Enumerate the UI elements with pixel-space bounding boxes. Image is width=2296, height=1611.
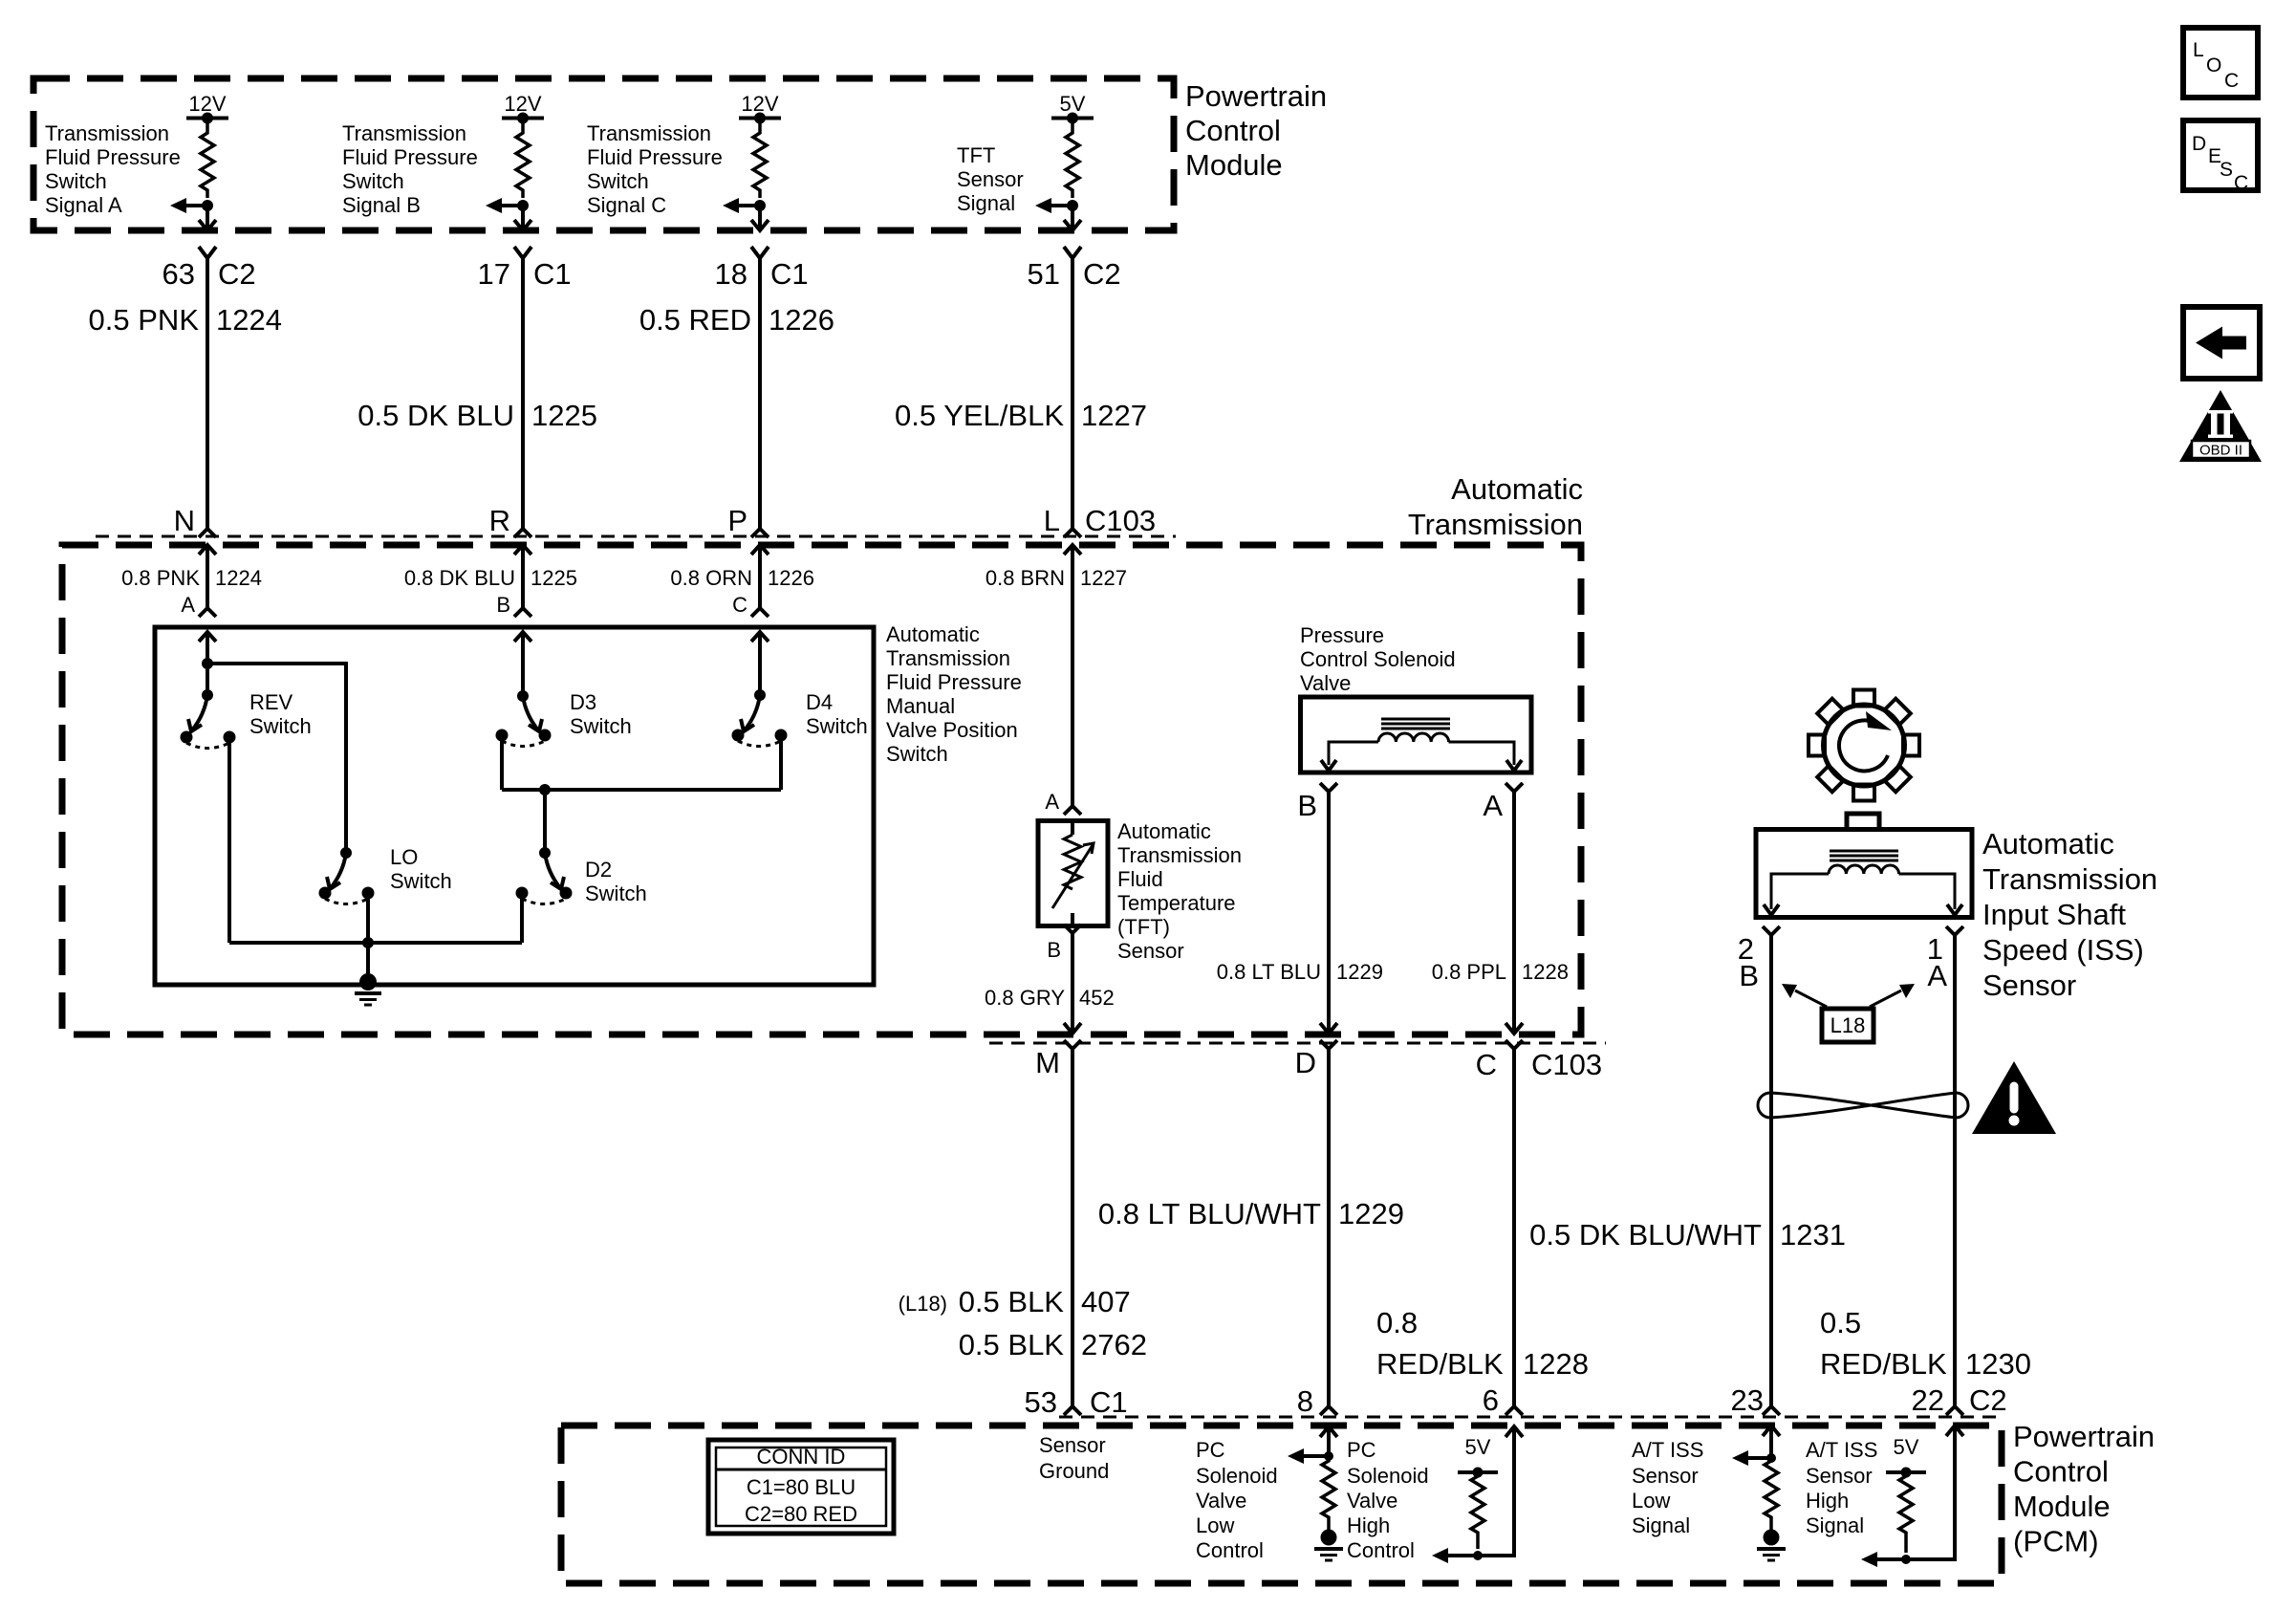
wire: circuit 1228 PCS A down to AT case C <box>1512 792 1516 1034</box>
node: 5V rail (pin 6) <box>1458 1470 1498 1474</box>
svg-text:M: M <box>1035 1046 1060 1079</box>
resistor: 5V pull-up (pin 6) <box>1471 1472 1484 1549</box>
Automatic Transmission dashed outline box <box>62 545 1581 1034</box>
wire through TFT box <box>1071 821 1074 836</box>
switch D3: travel arc (dashed) <box>502 741 545 747</box>
node: 5V rail (pin 22) <box>1886 1470 1926 1474</box>
switch REV: movable arm with arrowhead <box>191 695 207 731</box>
svg-text:(L18): (L18) <box>899 1292 947 1316</box>
svg-text:Switch: Switch <box>45 169 107 193</box>
svg-text:5V: 5V <box>1060 92 1086 116</box>
svg-text:0.5 DK BLU/WHT: 0.5 DK BLU/WHT <box>1529 1218 1762 1252</box>
svg-text:6: 6 <box>1483 1383 1499 1417</box>
switch REV: left contact <box>181 731 193 744</box>
ground: PCM internal ground (pin 23 path) <box>1764 1530 1780 1546</box>
wire: circuit 1230 ISS 1/A down to PCM 22 <box>1953 935 1957 1406</box>
junction: 5V pull-up bottom node (pin 22) <box>1901 1555 1911 1564</box>
svg-text:12V: 12V <box>741 92 778 116</box>
svg-text:Fluid Pressure: Fluid Pressure <box>886 670 1022 694</box>
svg-text:Fluid Pressure: Fluid Pressure <box>45 145 181 169</box>
svg-text:Powertrain: Powertrain <box>2013 1420 2155 1453</box>
wire: circuit 1228 from C103 C down to PCM 6 <box>1512 1049 1516 1406</box>
svg-text:0.8 LT BLU/WHT: 0.8 LT BLU/WHT <box>1098 1197 1321 1230</box>
pin 22: A/T ISS Sensor High Signal entry arrow <box>1946 1426 1963 1436</box>
svg-text:Sensor: Sensor <box>1117 939 1184 963</box>
wire: AT pin L entry arrow + lead down to TFT sensor pin A <box>1064 545 1081 555</box>
svg-text:C: C <box>732 593 747 617</box>
junction: pin 23 node <box>1766 1453 1776 1463</box>
connector female half at PCM pin 22 (opens down) <box>1946 1406 1963 1415</box>
gear icon: reluctor wheel with rotation arrow <box>1809 690 1919 801</box>
svg-text:Control: Control <box>1347 1538 1415 1562</box>
connector female half at PCM pin 6 (opens down) <box>1505 1406 1523 1415</box>
switch LO: travel arc (dashed) <box>325 899 368 904</box>
svg-text:B: B <box>1047 938 1061 962</box>
wire: circuit 1229 PCS B down to AT case D <box>1327 792 1331 1034</box>
connector female half at MVPS pin A <box>199 608 216 617</box>
svg-text:PC: PC <box>1196 1438 1225 1462</box>
ISS box top tab <box>1847 814 1879 830</box>
connector female half at PCM pin 53 (opens down) <box>1064 1406 1081 1415</box>
svg-text:B: B <box>1297 789 1317 822</box>
svg-text:Signal B: Signal B <box>342 193 421 217</box>
svg-text:(TFT): (TFT) <box>1117 915 1170 939</box>
node: 5V rail col4 <box>1051 117 1094 120</box>
resistor: PC solenoid low control internal <box>1322 1456 1335 1535</box>
svg-text:A: A <box>181 593 195 617</box>
svg-text:B: B <box>496 593 510 617</box>
svg-text:C1: C1 <box>533 257 572 291</box>
svg-text:63: 63 <box>162 257 195 291</box>
svg-text:1225: 1225 <box>531 566 577 590</box>
coil lead A with down arrow <box>1449 742 1515 765</box>
svg-text:C: C <box>2234 172 2248 194</box>
svg-text:Sensor: Sensor <box>1632 1464 1699 1488</box>
connector female half at PCM pin 18 <box>751 247 769 258</box>
svg-text:1226: 1226 <box>769 303 834 337</box>
signal arrow: A/T ISS Sensor Low Signal (points left) <box>1746 1456 1771 1460</box>
switch REV: pivot <box>202 689 213 701</box>
svg-text:Transmission: Transmission <box>342 121 466 145</box>
svg-text:0.5: 0.5 <box>1820 1306 1861 1339</box>
switch D4: left contact <box>732 729 745 742</box>
svg-text:Switch: Switch <box>249 714 312 738</box>
svg-text:452: 452 <box>1079 986 1115 1010</box>
svg-text:Fluid Pressure: Fluid Pressure <box>342 145 478 169</box>
svg-text:Valve: Valve <box>1347 1489 1397 1513</box>
switch LO: movable arm with arrowhead <box>330 853 346 889</box>
svg-text:12V: 12V <box>188 92 226 116</box>
resistor: TFP switch signal C pull-up <box>753 119 767 199</box>
svg-text:0.5 BLK: 0.5 BLK <box>959 1328 1065 1361</box>
svg-text:Sensor: Sensor <box>957 167 1024 191</box>
wire: ground stem to case <box>366 943 370 983</box>
svg-text:L: L <box>1044 504 1060 537</box>
Automatic Transmission Input Shaft Speed (ISS) Sensor box <box>1756 830 1972 918</box>
wire: D2 left contact down to ground bus <box>520 893 524 943</box>
svg-text:0.8 BRN: 0.8 BRN <box>986 566 1065 590</box>
svg-text:1225: 1225 <box>531 399 597 432</box>
connector female half at C103 P (opens down) <box>751 529 769 537</box>
svg-text:Temperature: Temperature <box>1117 891 1236 915</box>
resistor: 5V pull-up (pin 22) <box>1899 1472 1913 1553</box>
svg-text:C1: C1 <box>1090 1385 1128 1419</box>
switch D2: movable arm with arrowhead <box>545 853 561 889</box>
resistor: ISS low signal internal <box>1765 1458 1778 1535</box>
junction: col4 signal node <box>1067 200 1078 211</box>
svg-text:Module: Module <box>2013 1490 2111 1523</box>
svg-text:RED/BLK: RED/BLK <box>1820 1347 1947 1381</box>
switch D3: right contact <box>539 729 552 742</box>
svg-text:1227: 1227 <box>1081 399 1147 432</box>
svg-text:2762: 2762 <box>1081 1328 1147 1361</box>
svg-text:0.5 RED: 0.5 RED <box>639 303 751 337</box>
svg-text:1228: 1228 <box>1522 960 1569 984</box>
svg-text:C1: C1 <box>770 257 809 291</box>
wire: pin 22 down and left to 5V divider <box>1874 1426 1955 1559</box>
switch D2: entry node <box>539 847 551 859</box>
wire: LO right contact down to ground bus <box>366 893 370 943</box>
svg-text:C103: C103 <box>1085 504 1156 537</box>
solenoid coil <box>1378 733 1449 742</box>
svg-text:Signal: Signal <box>1632 1513 1690 1537</box>
wire: circuit 407/2762 from C103 M down to PCM 53 C1 <box>1071 1049 1074 1406</box>
svg-text:LO: LO <box>390 845 418 869</box>
wire: AT pin R entry arrow + lead to MVPS pin B <box>514 545 531 555</box>
svg-text:12V: 12V <box>504 92 541 116</box>
connector female half at MVPS pin C <box>751 608 769 617</box>
svg-text:Solenoid: Solenoid <box>1196 1464 1278 1488</box>
svg-text:0.8: 0.8 <box>1376 1306 1418 1339</box>
pin 8: PC Solenoid Valve Low Control entry arrow <box>1320 1426 1337 1437</box>
svg-text:Signal: Signal <box>957 191 1015 215</box>
wire: bus down to D2 switch <box>543 790 547 853</box>
junction: D2 branch node on feed bus <box>539 784 551 795</box>
svg-text:CONN ID: CONN ID <box>757 1445 846 1469</box>
svg-text:S: S <box>2220 159 2233 181</box>
svg-text:Manual: Manual <box>886 694 955 718</box>
wire: circuit 1227 from PCM 51 C2 down to AT pin L <box>1071 258 1074 529</box>
junction: ground bus node <box>362 937 374 948</box>
svg-text:D3: D3 <box>570 690 596 714</box>
svg-text:A: A <box>1045 790 1059 814</box>
svg-text:Control Solenoid: Control Solenoid <box>1300 647 1456 671</box>
svg-text:C2=80 RED: C2=80 RED <box>745 1502 857 1526</box>
svg-text:C2: C2 <box>218 257 256 291</box>
node: 12V rail col1 <box>186 117 228 120</box>
resistor: TFT sensor signal pull-up <box>1066 119 1079 199</box>
svg-text:C: C <box>1476 1048 1497 1081</box>
switch D3: pivot <box>517 690 529 702</box>
svg-text:Valve: Valve <box>1300 671 1351 695</box>
svg-text:C: C <box>2224 70 2239 92</box>
svg-text:N: N <box>174 504 195 537</box>
Powertrain Control Module (top) dashed outline box <box>33 78 1174 230</box>
callout arrow to A wire <box>1870 991 1901 1007</box>
svg-text:0.8 ORN: 0.8 ORN <box>670 566 752 590</box>
svg-text:Switch: Switch <box>587 169 649 193</box>
svg-text:407: 407 <box>1081 1285 1131 1318</box>
svg-text:D: D <box>2192 133 2206 155</box>
svg-text:8: 8 <box>1297 1384 1313 1418</box>
switch LO: left contact <box>319 887 332 900</box>
ground: MVPS case ground <box>359 973 377 991</box>
wire: circuit 1226 from PCM 18 C1 down to AT pin P <box>758 258 762 529</box>
svg-text:Transmission: Transmission <box>1982 862 2157 896</box>
svg-text:High: High <box>1347 1513 1390 1537</box>
svg-text:Control: Control <box>2013 1455 2109 1489</box>
switch REV: right contact <box>224 731 236 744</box>
junction: pin 8 node <box>1324 1451 1333 1461</box>
svg-text:17: 17 <box>478 257 510 291</box>
switch D4: right contact <box>775 729 788 742</box>
switch D3: movable arm with arrowhead <box>523 696 539 731</box>
svg-text:Transmission: Transmission <box>886 646 1010 670</box>
connector C103 (top) thin dashed line <box>96 535 1176 538</box>
svg-text:53: 53 <box>1025 1385 1057 1419</box>
svg-text:Sensor: Sensor <box>1039 1433 1106 1457</box>
wire: MVPS pin C internal entry arrow to D4 <box>751 632 769 642</box>
switch D4: movable arm with arrowhead <box>744 695 760 731</box>
svg-text:Solenoid: Solenoid <box>1347 1464 1429 1488</box>
resistor: TFP switch signal A pull-up <box>201 119 214 199</box>
solenoid core lines <box>1381 718 1450 721</box>
svg-text:Switch: Switch <box>390 869 452 893</box>
svg-text:Powertrain: Powertrain <box>1185 79 1327 113</box>
connector female half at TFT pin B (opens up) <box>1064 925 1081 933</box>
svg-text:0.5 BLK: 0.5 BLK <box>959 1285 1065 1318</box>
svg-text:Control: Control <box>1196 1538 1264 1562</box>
svg-text:A: A <box>1483 789 1503 822</box>
svg-text:1226: 1226 <box>768 566 814 590</box>
connector female half at PCS pin A (opens up) <box>1505 783 1523 792</box>
switch D4: pivot <box>754 689 766 701</box>
junction: REV switch feed node <box>202 658 213 669</box>
svg-text:C1=80 BLU: C1=80 BLU <box>747 1475 856 1499</box>
svg-text:0.8 DK BLU: 0.8 DK BLU <box>404 566 515 590</box>
svg-text:L18: L18 <box>1830 1013 1866 1037</box>
wire: ground bus (REV/LO/D2 contacts) <box>229 941 522 945</box>
wire: circuit 1224 from PCM 63 C2 down to AT pin N <box>206 258 209 529</box>
connector female half at MVPS pin B <box>514 608 531 617</box>
twisted pair symbol on ISS wires <box>1758 1093 1968 1118</box>
svg-text:Pressure: Pressure <box>1300 623 1384 647</box>
svg-text:Automatic: Automatic <box>1451 472 1583 506</box>
svg-text:Low: Low <box>1632 1489 1670 1513</box>
svg-text:O: O <box>2206 54 2221 76</box>
coil lead B with down arrow <box>1329 742 1378 765</box>
svg-text:Switch: Switch <box>806 714 868 738</box>
svg-text:C103: C103 <box>1531 1048 1602 1081</box>
svg-text:A: A <box>1927 959 1947 992</box>
svg-text:22: 22 <box>1912 1383 1944 1417</box>
out-arrow at AT case edge (C) <box>1505 1023 1523 1034</box>
svg-text:Signal A: Signal A <box>45 193 122 217</box>
wire: MVPS pin B internal entry arrow to D3 <box>514 632 531 642</box>
svg-text:51: 51 <box>1028 257 1060 291</box>
svg-text:D: D <box>1295 1046 1316 1079</box>
node: 12V rail col2 <box>502 117 544 120</box>
wire: AT pin P entry arrow + lead to MVPS pin C <box>751 545 769 555</box>
wire: circuit 1229 from C103 D down to PCM 8 <box>1327 1049 1331 1406</box>
svg-text:Fluid Pressure: Fluid Pressure <box>587 145 723 169</box>
svg-text:High: High <box>1806 1489 1849 1513</box>
signal arrow: TFP Switch Signal C (points left) <box>736 204 760 207</box>
junction: col1 signal node <box>202 200 213 211</box>
svg-text:C2: C2 <box>1969 1383 2007 1417</box>
svg-text:1224: 1224 <box>216 303 282 337</box>
svg-text:Switch: Switch <box>570 714 632 738</box>
switch LO: entry node <box>340 847 352 859</box>
svg-text:Ground: Ground <box>1039 1459 1109 1483</box>
node: 12V rail col3 <box>739 117 781 120</box>
svg-text:REV: REV <box>249 690 293 714</box>
svg-text:Automatic: Automatic <box>1117 819 1211 843</box>
svg-text:5V: 5V <box>1465 1435 1491 1459</box>
connector female half at TFT pin A (opens down) <box>1064 806 1081 815</box>
svg-text:Fluid: Fluid <box>1117 867 1163 891</box>
signal arrow: high control (points left) <box>1432 1548 1448 1563</box>
svg-text:0.8 PPL: 0.8 PPL <box>1432 960 1506 984</box>
svg-text:RED/BLK: RED/BLK <box>1376 1347 1504 1381</box>
wire: D2 feed bus from D3 contact to D4 contact <box>502 788 781 792</box>
wire: circuit 1231 ISS 2/B down to PCM 23 <box>1769 935 1773 1406</box>
signal arrow: TFP Switch Signal B (points left) <box>499 204 523 207</box>
svg-text:R: R <box>489 504 510 537</box>
svg-text:Module: Module <box>1185 148 1283 182</box>
icon: OBD II triangle <box>2179 390 2262 462</box>
callout arrow to B wire <box>1795 991 1827 1007</box>
junction: 5V pull-up bottom node <box>1473 1551 1483 1560</box>
svg-text:Speed (ISS): Speed (ISS) <box>1982 933 2144 967</box>
svg-text:TFT: TFT <box>957 143 995 167</box>
connector female half at PCM pin 8 (opens down) <box>1320 1406 1337 1415</box>
Powertrain Control Module (bottom) dashed outline box <box>561 1426 2002 1583</box>
svg-text:Transmission: Transmission <box>45 121 169 145</box>
svg-text:1229: 1229 <box>1338 1197 1404 1230</box>
svg-text:D4: D4 <box>806 690 833 714</box>
svg-text:1228: 1228 <box>1523 1347 1589 1381</box>
svg-text:Automatic: Automatic <box>886 622 980 646</box>
ground: PCM internal ground (pin 8 path) <box>1321 1530 1337 1546</box>
wire: circuit 1225 from PCM 17 C1 down to AT pin R <box>521 258 525 529</box>
wire: col4 down to PCM case edge with out-arrow <box>1071 206 1074 229</box>
wire: AT pin N entry arrow + lead to MVPS pin A <box>199 545 216 555</box>
svg-text:Sensor: Sensor <box>1982 969 2076 1002</box>
connector female half at C103 N (opens down) <box>199 529 216 537</box>
connector female half at C103 C (opens up) <box>1505 1040 1523 1049</box>
wire: REV right contact down to ground bus <box>227 737 231 943</box>
svg-text:0.8 LT BLU: 0.8 LT BLU <box>1217 960 1321 984</box>
svg-text:Transmission: Transmission <box>587 121 711 145</box>
switch D2: right contact <box>560 887 573 900</box>
svg-text:5V: 5V <box>1894 1435 1919 1459</box>
connector female half at C103 D (opens up) <box>1320 1040 1337 1049</box>
resistor: TFP switch signal B pull-up <box>516 119 530 199</box>
ISS solenoid core lines <box>1830 850 1898 853</box>
PC solenoid valve box <box>1301 697 1532 773</box>
signal arrow: high signal (points left) <box>1861 1552 1877 1567</box>
svg-text:C2: C2 <box>1083 257 1121 291</box>
connector female half at PCM pin 23 (opens down) <box>1763 1406 1780 1415</box>
svg-text:Automatic: Automatic <box>1982 827 2114 860</box>
wire: MVPS pin A internal entry arrow <box>199 632 216 642</box>
svg-text:23: 23 <box>1731 1383 1764 1417</box>
switch D4: travel arc (dashed) <box>738 741 781 747</box>
svg-text:Sensor: Sensor <box>1806 1464 1873 1488</box>
pin 6: PC Solenoid Valve High Control entry arrow <box>1505 1426 1523 1437</box>
Manual Valve Position Switch solid box <box>155 627 874 985</box>
connector C103 (bottom) thin dashed line <box>989 1042 1606 1045</box>
svg-text:0.5 PNK: 0.5 PNK <box>89 303 200 337</box>
pin 23: A/T ISS Sensor Low Signal entry arrow <box>1763 1426 1780 1436</box>
svg-text:Low: Low <box>1196 1513 1234 1537</box>
ISS coil <box>1829 865 1899 874</box>
svg-text:Control: Control <box>1185 114 1281 147</box>
connector female half at PCM pin 17 <box>514 247 531 258</box>
connector female half at PCS pin B (opens up) <box>1320 783 1337 792</box>
switch LO: right contact <box>362 887 375 900</box>
svg-text:A/T ISS: A/T ISS <box>1806 1438 1877 1462</box>
connector female half at ISS pin 2 (opens up) <box>1763 926 1780 935</box>
connector female half at C103 L (opens down) <box>1064 529 1081 537</box>
thermistor: TFT variable resistor <box>1064 835 1081 889</box>
svg-text:0.5 YEL/BLK: 0.5 YEL/BLK <box>895 399 1064 432</box>
ISS coil lead 1/A with down arrow <box>1899 874 1956 909</box>
svg-text:P: P <box>727 504 747 537</box>
svg-text:0.8 GRY: 0.8 GRY <box>985 986 1065 1010</box>
signal arrow: TFT Sensor Signal (points left) <box>1049 204 1072 207</box>
TFT sensor box <box>1038 821 1108 926</box>
icon: LOC reference box <box>2183 28 2258 98</box>
wire: D3 left contact down to D2 feed bus <box>500 735 504 790</box>
svg-text:OBD II: OBD II <box>2199 443 2242 459</box>
CONN ID table <box>708 1440 894 1534</box>
connector female half at PCM pin 63 <box>199 247 216 258</box>
warning triangle (caution note) <box>1972 1061 2056 1134</box>
svg-text:1227: 1227 <box>1080 566 1127 590</box>
svg-text:0.8 PNK: 0.8 PNK <box>121 566 200 590</box>
svg-text:Input Shaft: Input Shaft <box>1982 898 2126 931</box>
connector female half at C103 M (opens up) <box>1064 1040 1081 1049</box>
svg-text:1230: 1230 <box>1965 1347 2031 1381</box>
svg-text:1224: 1224 <box>215 566 262 590</box>
signal arrow: PC Solenoid Valve Low Control (points left) <box>1302 1454 1329 1458</box>
junction: col3 signal node <box>754 200 766 211</box>
svg-text:Signal C: Signal C <box>587 193 666 217</box>
icon: DESC reference box <box>2183 120 2258 194</box>
svg-text:0.5 DK BLU: 0.5 DK BLU <box>357 399 514 432</box>
connector female half at PCM pin 51 <box>1064 247 1081 258</box>
svg-text:(PCM): (PCM) <box>2013 1525 2099 1558</box>
wire: col1 down to PCM case edge with out-arrow <box>206 206 209 229</box>
ISS coil lead 2/B with down arrow <box>1771 874 1829 909</box>
svg-text:D2: D2 <box>585 858 612 882</box>
connector female half at C103 R (opens down) <box>514 529 531 537</box>
svg-text:1229: 1229 <box>1336 960 1383 984</box>
switch D2: travel arc (dashed) <box>522 899 566 904</box>
svg-text:Transmission: Transmission <box>1117 843 1242 867</box>
connector female half at ISS pin 1 (opens up) <box>1946 926 1963 935</box>
switch D3: left contact <box>496 729 509 742</box>
icon: back-arrow box <box>2183 307 2260 379</box>
svg-text:B: B <box>1739 959 1759 992</box>
switch D2: left contact <box>516 887 529 900</box>
svg-text:Transmission: Transmission <box>1408 508 1583 541</box>
svg-text:1231: 1231 <box>1780 1218 1846 1252</box>
svg-text:L: L <box>2193 39 2204 61</box>
svg-text:PC: PC <box>1347 1438 1376 1462</box>
